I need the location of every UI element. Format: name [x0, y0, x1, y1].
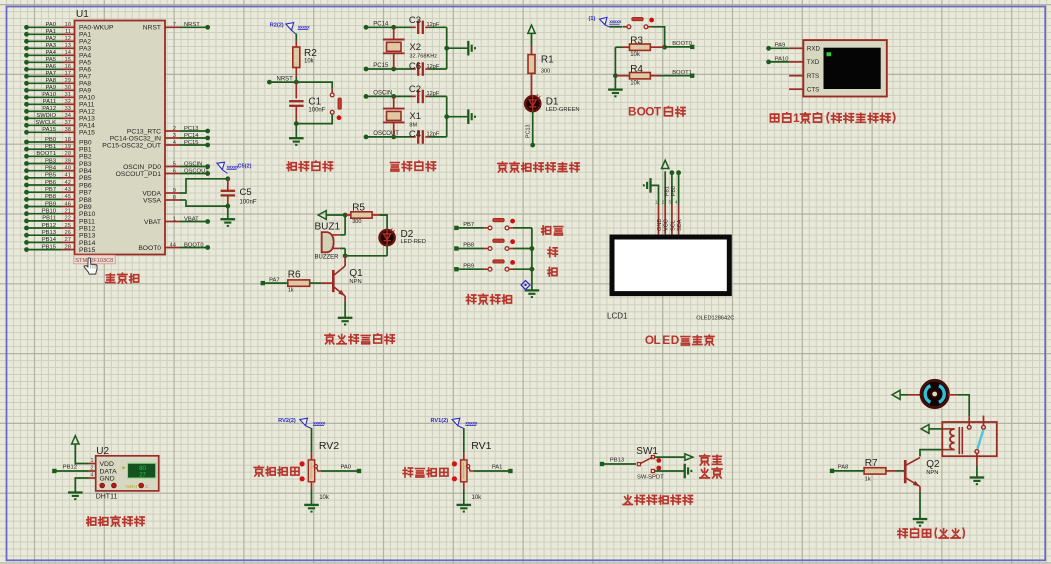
- svg-text:PB6: PB6: [79, 182, 92, 189]
- svg-text:PB2: PB2: [79, 154, 92, 161]
- svg-text:32: 32: [65, 99, 71, 105]
- svg-text:12pF: 12pF: [427, 64, 440, 70]
- svg-text:C: C: [145, 484, 149, 490]
- svg-text:7: 7: [173, 22, 176, 28]
- svg-text:19: 19: [65, 144, 71, 150]
- svg-text:BOOT0: BOOT0: [672, 41, 692, 47]
- svg-text:4: 4: [91, 473, 94, 479]
- svg-text:PB8: PB8: [45, 194, 56, 200]
- svg-text:8: 8: [173, 195, 176, 201]
- svg-text:PA10: PA10: [42, 92, 56, 98]
- svg-text:33: 33: [65, 106, 71, 112]
- svg-text:1: 1: [793, 111, 800, 125]
- svg-text:BOOT1: BOOT1: [672, 70, 692, 76]
- svg-text:PA15: PA15: [79, 130, 95, 137]
- svg-text:PA3: PA3: [45, 43, 56, 49]
- svg-text:100nF: 100nF: [308, 108, 325, 114]
- svg-text:PA8: PA8: [45, 78, 56, 84]
- svg-text:C2: C2: [409, 84, 421, 95]
- svg-text:C3: C3: [409, 15, 421, 26]
- svg-text:PA1: PA1: [79, 32, 91, 39]
- svg-text:PC13: PC13: [526, 125, 532, 139]
- svg-text:NRST: NRST: [277, 77, 294, 83]
- svg-text:300: 300: [352, 219, 361, 225]
- svg-text:46: 46: [65, 201, 71, 207]
- svg-text:SCL: SCL: [670, 220, 676, 231]
- svg-text:U1: U1: [76, 9, 89, 20]
- svg-text:PB1: PB1: [664, 186, 670, 196]
- svg-text:OSCIN: OSCIN: [373, 91, 392, 97]
- svg-text:PB1: PB1: [45, 144, 56, 150]
- svg-text:PA4: PA4: [79, 53, 91, 60]
- svg-text:L: L: [654, 333, 661, 347]
- svg-text:PA0-WKUP: PA0-WKUP: [79, 25, 114, 32]
- svg-text:X1: X1: [409, 111, 421, 122]
- svg-text:PB15: PB15: [42, 244, 56, 250]
- svg-text:22: 22: [65, 216, 71, 222]
- svg-text:PA2: PA2: [45, 36, 56, 42]
- svg-text:OLED128642C: OLED128642C: [696, 316, 734, 322]
- svg-text:1k: 1k: [865, 476, 871, 482]
- svg-text:43: 43: [65, 187, 71, 193]
- svg-text:RV2(2): RV2(2): [278, 418, 296, 424]
- svg-text:PB13: PB13: [79, 233, 96, 240]
- svg-text:PB14: PB14: [42, 237, 57, 243]
- svg-text:4: 4: [675, 200, 678, 205]
- svg-text:RTS: RTS: [807, 73, 819, 80]
- svg-text:9: 9: [173, 188, 176, 194]
- svg-text:1: 1: [173, 216, 176, 222]
- svg-text:R6: R6: [288, 270, 301, 281]
- svg-text:PB5: PB5: [45, 173, 56, 179]
- svg-text:10k: 10k: [630, 52, 641, 58]
- svg-text:10k: 10k: [319, 495, 330, 501]
- svg-text:C5(2): C5(2): [238, 164, 252, 170]
- svg-text:DATA: DATA: [100, 468, 118, 475]
- svg-text:PA12: PA12: [42, 106, 56, 112]
- svg-text:PA7: PA7: [45, 71, 56, 77]
- svg-text:12pF: 12pF: [427, 22, 440, 28]
- svg-text:R1: R1: [541, 55, 554, 66]
- svg-text:PA10: PA10: [79, 95, 95, 102]
- svg-text:PA14: PA14: [79, 123, 95, 130]
- svg-text:BUZZER: BUZZER: [315, 255, 340, 261]
- svg-text:PA1: PA1: [492, 465, 503, 471]
- svg-text:RV1: RV1: [471, 440, 491, 452]
- svg-text:30: 30: [65, 85, 71, 91]
- svg-text:PB0: PB0: [45, 137, 56, 143]
- svg-text:DHT11: DHT11: [96, 494, 118, 501]
- svg-text:NRST: NRST: [184, 22, 200, 28]
- svg-text:C1: C1: [308, 97, 321, 108]
- svg-text:PA10: PA10: [775, 56, 789, 62]
- svg-text:PB13: PB13: [42, 230, 56, 236]
- svg-text:PA8: PA8: [838, 465, 849, 471]
- svg-text:38: 38: [65, 127, 71, 133]
- svg-text:PA11: PA11: [43, 99, 56, 105]
- svg-text:PB13: PB13: [610, 458, 624, 464]
- svg-text:BOOT1: BOOT1: [36, 151, 56, 157]
- svg-text:RXD: RXD: [807, 46, 821, 53]
- svg-text:1k: 1k: [288, 288, 294, 294]
- svg-text:34: 34: [65, 113, 72, 119]
- svg-text:3: 3: [668, 200, 671, 205]
- svg-text:PB9: PB9: [45, 201, 56, 207]
- svg-text:R7: R7: [865, 458, 878, 469]
- svg-text:2: 2: [173, 126, 176, 132]
- svg-text:%RH: %RH: [126, 484, 138, 490]
- svg-text:R2: R2: [304, 48, 317, 59]
- svg-text:18: 18: [65, 137, 71, 143]
- svg-text:R3: R3: [630, 36, 643, 47]
- svg-text:(1): (1): [589, 16, 596, 22]
- svg-text:PB12: PB12: [63, 465, 77, 471]
- svg-text:OSCIN_PD0: OSCIN_PD0: [123, 164, 161, 171]
- svg-text:Q2: Q2: [926, 459, 940, 470]
- svg-text:SWCLK: SWCLK: [35, 120, 56, 126]
- svg-text:10k: 10k: [630, 81, 641, 87]
- svg-text:PB3: PB3: [79, 161, 92, 168]
- svg-text:PB11: PB11: [79, 218, 95, 225]
- svg-text:PB11: PB11: [42, 216, 56, 222]
- svg-text:BOOT0: BOOT0: [138, 245, 161, 252]
- svg-text:13: 13: [65, 43, 71, 49]
- svg-text:PB10: PB10: [42, 209, 56, 215]
- svg-text:OSCOUT_PD1: OSCOUT_PD1: [116, 171, 162, 178]
- svg-text:E: E: [662, 333, 670, 347]
- svg-text:PB15: PB15: [79, 247, 96, 254]
- svg-text:BUZ1: BUZ1: [315, 222, 341, 233]
- svg-text:41: 41: [65, 173, 71, 179]
- svg-text:PA5: PA5: [79, 60, 91, 67]
- svg-text:1: 1: [655, 200, 658, 205]
- svg-text:PB1: PB1: [79, 147, 92, 154]
- svg-text:PB4: PB4: [45, 166, 57, 172]
- svg-text:PA4: PA4: [45, 50, 56, 56]
- svg-text:C5: C5: [240, 187, 252, 198]
- svg-text:BOOT0: BOOT0: [184, 242, 204, 248]
- svg-text:3: 3: [173, 133, 176, 139]
- svg-text:6: 6: [173, 168, 176, 174]
- svg-text:PB12: PB12: [79, 225, 96, 232]
- svg-text:PA6: PA6: [79, 67, 91, 74]
- svg-text:300: 300: [541, 69, 550, 75]
- svg-text:LED-RED: LED-RED: [401, 239, 426, 245]
- svg-text:44: 44: [170, 242, 177, 248]
- svg-text:VDD: VDD: [100, 461, 114, 468]
- svg-text:VCC: VCC: [664, 219, 670, 231]
- svg-text:14: 14: [65, 50, 72, 56]
- svg-text:PA13: PA13: [79, 116, 95, 123]
- svg-text:10k: 10k: [472, 495, 483, 501]
- svg-text:45: 45: [65, 194, 71, 200]
- svg-text:GND: GND: [100, 475, 115, 482]
- svg-text:PB6: PB6: [45, 180, 56, 186]
- svg-text:PB0: PB0: [79, 139, 92, 146]
- svg-text:12pF: 12pF: [427, 132, 440, 138]
- svg-text:SW-SPDT: SW-SPDT: [637, 474, 664, 480]
- svg-text:PB0: PB0: [671, 186, 677, 196]
- svg-text:42: 42: [65, 180, 71, 186]
- svg-text:GND: GND: [657, 219, 663, 231]
- svg-text:12: 12: [65, 36, 71, 42]
- svg-text:PC14-OSC32_IN: PC14-OSC32_IN: [110, 135, 161, 142]
- svg-text:VSSA: VSSA: [143, 197, 161, 204]
- svg-text:PA9: PA9: [45, 85, 56, 91]
- svg-text:OSCIN: OSCIN: [184, 161, 202, 167]
- svg-text:29: 29: [65, 78, 71, 84]
- svg-text:B: B: [628, 105, 637, 119]
- svg-text:25: 25: [65, 223, 71, 229]
- svg-text:31: 31: [65, 92, 71, 98]
- svg-text:PA9: PA9: [79, 88, 91, 95]
- svg-text:2: 2: [91, 466, 94, 472]
- svg-text:PB4: PB4: [79, 168, 92, 175]
- svg-text:11: 11: [65, 29, 71, 35]
- svg-text:PB8: PB8: [79, 197, 92, 204]
- svg-text:RV2: RV2: [319, 440, 339, 452]
- svg-text:10k: 10k: [304, 59, 315, 65]
- svg-text:PC13: PC13: [184, 126, 199, 132]
- svg-text:PA15: PA15: [42, 127, 56, 133]
- svg-text:16: 16: [65, 64, 71, 70]
- svg-text:LED-GREEN: LED-GREEN: [546, 107, 580, 113]
- svg-text:10: 10: [65, 22, 71, 28]
- svg-text:PA3: PA3: [79, 46, 91, 53]
- svg-text:28: 28: [65, 244, 71, 250]
- svg-text:26: 26: [65, 230, 71, 236]
- svg-text:40: 40: [65, 166, 71, 172]
- svg-text:PA5: PA5: [45, 57, 56, 63]
- svg-text:C4: C4: [409, 129, 421, 140]
- svg-text:NPN: NPN: [926, 470, 938, 476]
- svg-text:PB9: PB9: [79, 204, 92, 211]
- svg-text:PA2: PA2: [79, 39, 91, 46]
- svg-text:PB12: PB12: [42, 223, 56, 229]
- svg-text:PA6: PA6: [45, 64, 56, 70]
- svg-text:PC15-OSC32_OUT: PC15-OSC32_OUT: [102, 142, 161, 149]
- svg-text:21: 21: [65, 209, 71, 215]
- svg-text:37: 37: [65, 120, 71, 126]
- svg-text:2: 2: [662, 200, 665, 205]
- svg-text:PB7: PB7: [79, 190, 92, 197]
- svg-text:32.768KHz: 32.768KHz: [409, 53, 437, 59]
- svg-text:LCD1: LCD1: [607, 312, 628, 321]
- svg-text:X2: X2: [409, 42, 421, 53]
- svg-text:TXD: TXD: [807, 59, 820, 66]
- svg-text:PC14: PC14: [373, 22, 389, 28]
- svg-text:15: 15: [65, 57, 71, 63]
- svg-text:PB10: PB10: [79, 211, 96, 218]
- svg-text:R2(2): R2(2): [270, 22, 284, 28]
- svg-text:NRST: NRST: [143, 25, 161, 32]
- svg-text:PC15: PC15: [373, 63, 389, 69]
- svg-text:100nF: 100nF: [240, 200, 257, 206]
- svg-text:1: 1: [91, 458, 94, 464]
- svg-text:PB3: PB3: [45, 158, 56, 164]
- svg-text:RV1(2): RV1(2): [430, 418, 448, 424]
- svg-text:PA0: PA0: [340, 465, 351, 471]
- svg-text:PA12: PA12: [79, 109, 95, 116]
- svg-text:PA0: PA0: [45, 22, 56, 28]
- svg-text:8M: 8M: [409, 122, 417, 128]
- svg-text:VBAT: VBAT: [144, 219, 161, 226]
- svg-text:R5: R5: [352, 203, 365, 214]
- svg-text:PA1: PA1: [45, 29, 56, 35]
- svg-text:VBAT: VBAT: [184, 216, 199, 222]
- svg-text:PB14: PB14: [79, 240, 96, 247]
- svg-text:U2: U2: [96, 446, 109, 457]
- svg-text:27: 27: [139, 471, 146, 478]
- svg-text:39: 39: [65, 158, 71, 164]
- svg-text:STM32F103C8: STM32F103C8: [75, 258, 113, 264]
- svg-text:5: 5: [173, 161, 176, 167]
- svg-text:OSCOUT: OSCOUT: [184, 168, 209, 174]
- svg-text:NPN: NPN: [349, 279, 361, 285]
- svg-text:PA8: PA8: [79, 81, 91, 88]
- svg-text:SDA: SDA: [677, 219, 683, 231]
- svg-text:T: T: [654, 105, 662, 119]
- svg-text:C6: C6: [409, 61, 421, 72]
- svg-text:PA7: PA7: [79, 74, 91, 81]
- svg-text:PC13_RTC: PC13_RTC: [127, 128, 161, 135]
- svg-text:27: 27: [65, 237, 71, 243]
- svg-text:PC14: PC14: [184, 133, 199, 139]
- svg-text:12pF: 12pF: [427, 91, 440, 97]
- svg-text:PA9: PA9: [775, 43, 786, 49]
- svg-text:PA11: PA11: [79, 102, 95, 109]
- svg-text:Q1: Q1: [349, 268, 363, 279]
- svg-text:R4: R4: [630, 64, 643, 75]
- svg-text:VDDA: VDDA: [142, 190, 161, 197]
- svg-text:20: 20: [65, 151, 71, 157]
- svg-text:PC15: PC15: [184, 140, 199, 146]
- svg-text:D: D: [671, 333, 680, 347]
- svg-text:D1: D1: [546, 97, 559, 108]
- svg-text:17: 17: [65, 71, 71, 77]
- svg-text:PB7: PB7: [45, 187, 56, 193]
- svg-text:PB5: PB5: [79, 175, 92, 182]
- svg-text:CTS: CTS: [807, 87, 819, 94]
- svg-text:SWDIO: SWDIO: [36, 113, 56, 119]
